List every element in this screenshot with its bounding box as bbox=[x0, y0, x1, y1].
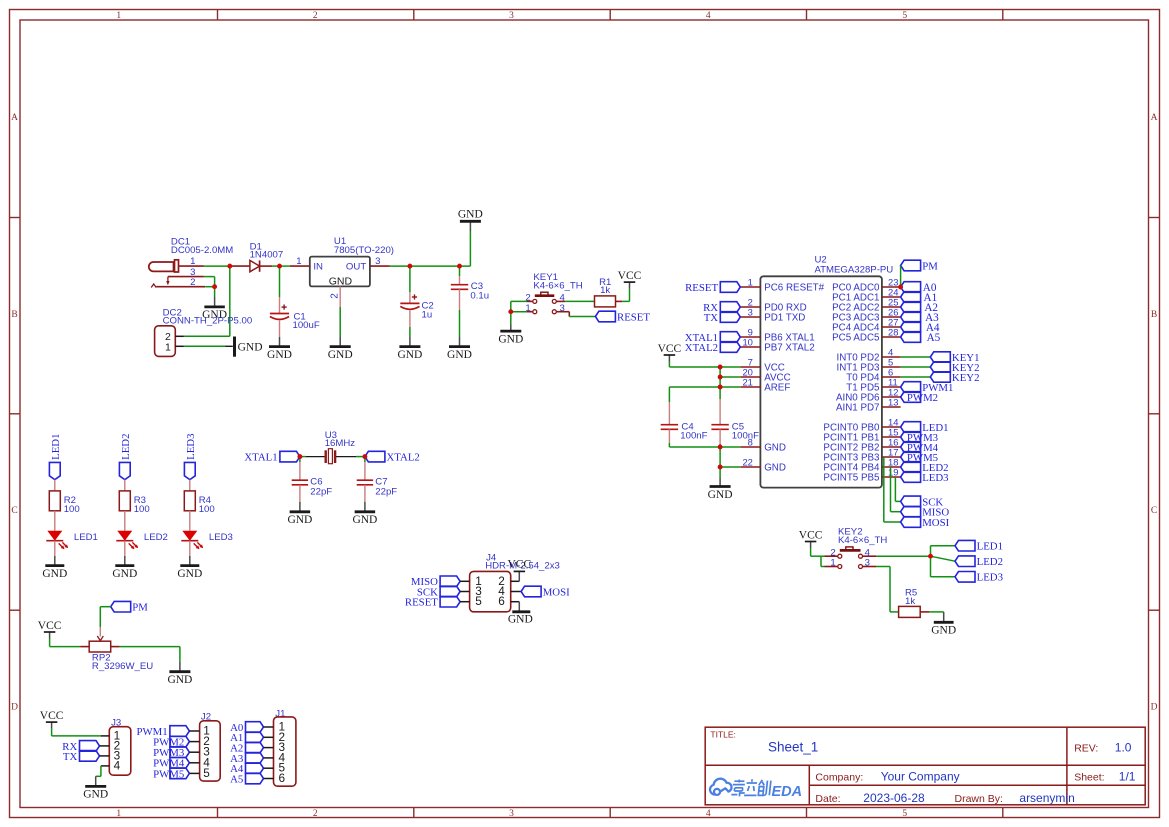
svg-text:A5: A5 bbox=[927, 332, 941, 344]
svg-text:MOSI: MOSI bbox=[543, 586, 570, 598]
svg-text:5: 5 bbox=[203, 766, 210, 780]
svg-text:GND: GND bbox=[267, 349, 292, 361]
svg-text:GND: GND bbox=[447, 349, 472, 361]
svg-text:1/1: 1/1 bbox=[1119, 770, 1136, 784]
svg-text:4: 4 bbox=[114, 758, 121, 772]
svg-text:4: 4 bbox=[706, 809, 711, 819]
svg-text:C: C bbox=[11, 506, 17, 516]
svg-text:GND: GND bbox=[458, 208, 483, 220]
svg-text:MOSI: MOSI bbox=[922, 517, 949, 529]
svg-text:5: 5 bbox=[902, 11, 907, 21]
svg-text:RESET: RESET bbox=[685, 282, 718, 294]
svg-text:AREF: AREF bbox=[764, 383, 790, 394]
svg-text:GND: GND bbox=[708, 489, 733, 501]
svg-text:Drawn By:: Drawn By: bbox=[955, 793, 1003, 805]
svg-text:2: 2 bbox=[190, 277, 195, 288]
svg-text:100: 100 bbox=[64, 504, 80, 515]
svg-text:REV:: REV: bbox=[1074, 743, 1098, 755]
svg-text:1.0: 1.0 bbox=[1115, 741, 1132, 755]
svg-text:LED2: LED2 bbox=[144, 532, 168, 543]
svg-text:10: 10 bbox=[742, 336, 752, 347]
svg-text:1: 1 bbox=[116, 809, 121, 819]
svg-text:LED3: LED3 bbox=[922, 472, 948, 484]
svg-text:C: C bbox=[1151, 506, 1157, 516]
svg-text:LED1: LED1 bbox=[977, 541, 1003, 553]
svg-text:1: 1 bbox=[165, 341, 171, 353]
svg-text:1N4007: 1N4007 bbox=[250, 250, 284, 261]
svg-text:4: 4 bbox=[706, 11, 711, 21]
svg-text:3: 3 bbox=[509, 809, 514, 819]
svg-text:5: 5 bbox=[902, 809, 907, 819]
svg-text:GND: GND bbox=[508, 614, 533, 626]
svg-text:100nF: 100nF bbox=[732, 431, 759, 442]
svg-text:6: 6 bbox=[279, 771, 286, 785]
svg-text:1k: 1k bbox=[905, 596, 915, 607]
svg-text:Your Company: Your Company bbox=[881, 769, 960, 783]
svg-text:2: 2 bbox=[330, 293, 341, 299]
svg-text:PC5 ADC5: PC5 ADC5 bbox=[832, 333, 880, 344]
svg-text:B: B bbox=[1151, 310, 1157, 320]
svg-text:PWM5: PWM5 bbox=[153, 768, 184, 780]
svg-text:B: B bbox=[11, 310, 17, 320]
svg-text:VCC: VCC bbox=[38, 620, 62, 632]
svg-text:PM: PM bbox=[132, 602, 148, 614]
svg-text:5: 5 bbox=[475, 594, 482, 608]
svg-text:GND: GND bbox=[764, 463, 786, 474]
svg-text:Sheet_1: Sheet_1 bbox=[768, 739, 818, 754]
svg-text:VCC: VCC bbox=[40, 710, 64, 722]
svg-text:TX: TX bbox=[63, 751, 78, 763]
svg-text:arsenymin: arsenymin bbox=[1019, 791, 1074, 805]
svg-text:21: 21 bbox=[742, 376, 752, 387]
svg-text:1u: 1u bbox=[422, 309, 433, 320]
svg-text:2: 2 bbox=[313, 11, 318, 21]
svg-text:K4-6×6_TH: K4-6×6_TH bbox=[533, 280, 582, 291]
svg-text:D: D bbox=[11, 703, 18, 713]
svg-text:R_3296W_EU: R_3296W_EU bbox=[92, 661, 153, 672]
svg-text:PC6 RESET#: PC6 RESET# bbox=[764, 283, 824, 294]
svg-text:1: 1 bbox=[116, 11, 121, 21]
svg-text:22pF: 22pF bbox=[375, 487, 397, 498]
svg-text:XTAL2: XTAL2 bbox=[387, 452, 420, 464]
svg-text:VCC: VCC bbox=[799, 529, 823, 541]
svg-text:GND: GND bbox=[397, 349, 422, 361]
svg-text:Date:: Date: bbox=[815, 793, 840, 805]
svg-text:19: 19 bbox=[888, 466, 898, 477]
svg-text:GND: GND bbox=[329, 276, 353, 288]
svg-text:GND: GND bbox=[112, 568, 137, 580]
svg-text:A: A bbox=[11, 113, 18, 123]
svg-text:3: 3 bbox=[748, 306, 753, 317]
svg-text:1k: 1k bbox=[600, 285, 610, 296]
svg-text:CONN-TH_2P-P5.00: CONN-TH_2P-P5.00 bbox=[163, 315, 253, 326]
svg-text:0.1u: 0.1u bbox=[470, 290, 489, 301]
svg-text:A5: A5 bbox=[230, 773, 243, 785]
svg-text:LED2: LED2 bbox=[120, 434, 132, 460]
svg-text:DC005-2.0MM: DC005-2.0MM bbox=[171, 245, 233, 256]
svg-text:GND: GND bbox=[167, 674, 192, 686]
svg-text:GND: GND bbox=[498, 333, 523, 345]
svg-text:VCC: VCC bbox=[618, 270, 642, 282]
svg-text:1: 1 bbox=[748, 276, 753, 287]
svg-text:100uF: 100uF bbox=[293, 320, 320, 331]
svg-text:PM: PM bbox=[922, 260, 938, 272]
svg-text:PD1 TXD: PD1 TXD bbox=[764, 313, 805, 324]
svg-text:22: 22 bbox=[742, 456, 752, 467]
svg-text:Sheet:: Sheet: bbox=[1074, 772, 1104, 784]
svg-text:IN: IN bbox=[313, 262, 323, 273]
svg-text:GND: GND bbox=[328, 349, 353, 361]
svg-text:GND: GND bbox=[42, 568, 67, 580]
svg-text:RESET: RESET bbox=[405, 597, 438, 609]
svg-text:100: 100 bbox=[134, 504, 150, 515]
svg-text:GND: GND bbox=[83, 789, 108, 801]
svg-text:VCC: VCC bbox=[507, 559, 531, 571]
svg-text:13: 13 bbox=[888, 396, 898, 407]
svg-text:TITLE:: TITLE: bbox=[710, 730, 736, 740]
svg-text:16MHz: 16MHz bbox=[325, 438, 356, 449]
svg-text:XTAL2: XTAL2 bbox=[685, 342, 718, 354]
svg-text:LED3: LED3 bbox=[209, 532, 233, 543]
svg-text:A: A bbox=[1151, 113, 1158, 123]
svg-text:GND: GND bbox=[238, 342, 263, 354]
svg-text:100nF: 100nF bbox=[680, 431, 707, 442]
svg-text:KEY2: KEY2 bbox=[952, 372, 980, 384]
svg-text:LED3: LED3 bbox=[185, 434, 197, 460]
svg-text:XTAL1: XTAL1 bbox=[244, 452, 277, 464]
svg-text:LED1: LED1 bbox=[50, 434, 62, 460]
svg-text:RESET: RESET bbox=[617, 311, 650, 323]
svg-text:28: 28 bbox=[888, 326, 898, 337]
svg-text:GND: GND bbox=[931, 625, 956, 637]
svg-text:2: 2 bbox=[313, 809, 318, 819]
svg-text:7805(TO-220): 7805(TO-220) bbox=[334, 245, 394, 256]
svg-text:GND: GND bbox=[764, 443, 786, 454]
svg-text:AIN1 PD7: AIN1 PD7 bbox=[836, 403, 880, 414]
svg-text:K4-6×6_TH: K4-6×6_TH bbox=[838, 535, 887, 546]
svg-text:LED1: LED1 bbox=[74, 532, 98, 543]
svg-text:100: 100 bbox=[199, 504, 215, 515]
svg-text:GND: GND bbox=[177, 568, 202, 580]
svg-text:ATMEGA328P-PU: ATMEGA328P-PU bbox=[815, 264, 894, 275]
svg-text:Company:: Company: bbox=[815, 771, 863, 783]
svg-text:PCINT5 PB5: PCINT5 PB5 bbox=[823, 473, 880, 484]
svg-text:1: 1 bbox=[296, 256, 301, 267]
svg-text:3: 3 bbox=[375, 256, 380, 267]
svg-text:VCC: VCC bbox=[658, 343, 682, 355]
svg-text:GND: GND bbox=[352, 514, 377, 526]
svg-text:LED2: LED2 bbox=[977, 556, 1003, 568]
svg-text:PWM2: PWM2 bbox=[907, 392, 938, 404]
svg-text:2023-06-28: 2023-06-28 bbox=[863, 791, 925, 805]
svg-text:TX: TX bbox=[704, 312, 719, 324]
svg-text:3: 3 bbox=[509, 11, 514, 21]
svg-text:6: 6 bbox=[498, 594, 505, 608]
svg-text:OUT: OUT bbox=[346, 262, 366, 273]
svg-text:LED3: LED3 bbox=[977, 572, 1003, 584]
svg-text:D: D bbox=[1151, 703, 1158, 713]
svg-text:22pF: 22pF bbox=[310, 487, 332, 498]
svg-text:J1: J1 bbox=[275, 709, 285, 720]
svg-text:EDA: EDA bbox=[772, 784, 803, 800]
svg-text:GND: GND bbox=[287, 514, 312, 526]
svg-text:PB7 XTAL2: PB7 XTAL2 bbox=[764, 343, 814, 354]
svg-text:1: 1 bbox=[190, 256, 195, 267]
